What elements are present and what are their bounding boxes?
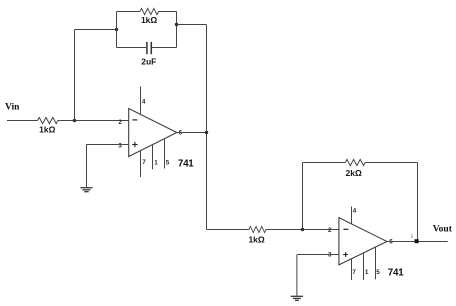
pin 4 label U1: [142, 99, 146, 106]
pin 7 label U2: [352, 269, 356, 276]
op-amp U2 minus sign: [343, 228, 348, 230]
wire U1 output: [177, 132, 207, 134]
wire across to feedback loop: [75, 29, 117, 31]
label 1k ohm stage2 resistor: [248, 235, 264, 245]
svg-text:i: i: [411, 234, 413, 240]
wire feedback loop bottom right segment: [152, 47, 177, 49]
op-amp U2 triangle: [339, 218, 387, 265]
svg-text:741: 741: [388, 267, 404, 278]
wire Vin input segment: [7, 120, 38, 122]
pin 7 lead U2: [351, 259, 353, 280]
wire down to ground 2: [296, 255, 298, 297]
svg-text:2: 2: [328, 227, 332, 234]
label 2uF capacitor: [141, 56, 156, 66]
node junction dot U1 output: [205, 131, 208, 134]
wire feedback exit to right: [177, 24, 207, 26]
svg-text:1kΩ: 1kΩ: [141, 15, 157, 25]
wire U1 plus input: [87, 144, 129, 146]
pin 7 label U1: [142, 159, 146, 166]
wire up from input node: [74, 30, 76, 121]
svg-text:4: 4: [142, 99, 146, 106]
node Vin label: [5, 103, 20, 113]
svg-text:2: 2: [118, 119, 122, 126]
pin 5 lead U2: [375, 247, 377, 279]
wire input to opamp1 inverting node: [58, 120, 129, 122]
wire feedback loop top right segment: [159, 11, 177, 13]
pin 4 lead U1: [140, 87, 142, 115]
svg-text:7: 7: [352, 269, 356, 276]
pin 5 lead U1: [164, 139, 166, 169]
svg-text:3: 3: [328, 252, 332, 259]
ground symbol G2: [291, 296, 303, 300]
node Vout label: [433, 225, 453, 235]
pin 2 label U2: [328, 227, 332, 234]
pin 6 label U1: [179, 129, 183, 136]
pin 4 label U2: [353, 208, 357, 215]
resistor R-in2 1k zigzag: [249, 226, 266, 232]
wire feedback2 left vertical: [302, 163, 304, 230]
svg-text:4: 4: [353, 208, 357, 215]
wire feedback2 top right segment: [365, 162, 417, 164]
pin 2 label U1: [118, 119, 122, 126]
node A junction dot at input: [73, 119, 76, 122]
wire bottom run left segment: [207, 229, 250, 231]
svg-text:Vout: Vout: [433, 225, 453, 235]
wire feedback2 top left segment: [303, 162, 346, 164]
resistor R-f1 1k zigzag: [140, 8, 159, 14]
pin 3 label U2: [328, 252, 332, 259]
label 2k ohm feedback resistor: [346, 168, 362, 178]
pin 6 label U2: [389, 238, 393, 245]
svg-text:5: 5: [166, 159, 170, 166]
capacitor C1 2uF plates: [147, 42, 151, 54]
svg-text:Vin: Vin: [5, 103, 20, 113]
op-amp U1 plus sign: [132, 142, 137, 147]
svg-text:2uF: 2uF: [141, 56, 156, 66]
wire feedback loop right side: [176, 12, 178, 48]
current probe mark i: [411, 234, 413, 240]
svg-text:1: 1: [365, 269, 369, 276]
wire bottom run right segment: [266, 229, 339, 231]
pin 1 label U2: [365, 269, 369, 276]
wire U2 output to Vout: [387, 241, 448, 243]
svg-text:2kΩ: 2kΩ: [346, 168, 362, 178]
label 1k ohm input resistor: [39, 125, 55, 135]
pin 7 lead U1: [140, 151, 142, 177]
wire feedback loop top left segment: [117, 11, 141, 13]
svg-text:1: 1: [154, 159, 158, 166]
svg-text:3: 3: [118, 143, 122, 150]
node junction dot feedback loop left: [115, 28, 118, 31]
node junction square dot U2 output: [415, 239, 419, 243]
svg-text:1kΩ: 1kΩ: [39, 125, 55, 135]
pin 1 label U1: [154, 159, 158, 166]
svg-text:5: 5: [376, 269, 380, 276]
wire down to ground 1: [86, 145, 88, 188]
wire U2 plus input: [297, 254, 339, 256]
resistor R-in 1k zigzag: [38, 117, 58, 123]
pin 3 label U1: [118, 143, 122, 150]
node junction dot stage2 inverting: [301, 228, 304, 231]
pin 1 lead U1: [152, 145, 154, 170]
ground symbol G1: [80, 188, 92, 192]
op-amp U2 plus sign: [343, 252, 348, 257]
wire feedback loop left side: [116, 12, 118, 48]
pin 5 label U1: [166, 159, 170, 166]
wire feedback2 right vertical: [417, 163, 419, 242]
op-amp U1 minus sign: [132, 119, 137, 121]
wire feedback loop bottom left segment: [117, 47, 147, 49]
label 741 U2: [388, 267, 404, 278]
svg-text:1kΩ: 1kΩ: [248, 235, 264, 245]
pin 1 lead U2: [363, 253, 365, 280]
wire long vertical from feedback to bottom run: [206, 25, 208, 230]
node junction dot feedback loop right: [175, 23, 178, 26]
svg-text:7: 7: [142, 159, 146, 166]
pin 4 lead U2: [351, 207, 353, 225]
label 741 U1: [178, 159, 194, 170]
svg-text:741: 741: [178, 159, 194, 170]
resistor R-f2 2k zigzag: [345, 159, 365, 165]
pin 5 label U2: [376, 269, 380, 276]
label 1k ohm feedback resistor: [141, 15, 157, 25]
op-amp U1 triangle: [129, 109, 177, 157]
